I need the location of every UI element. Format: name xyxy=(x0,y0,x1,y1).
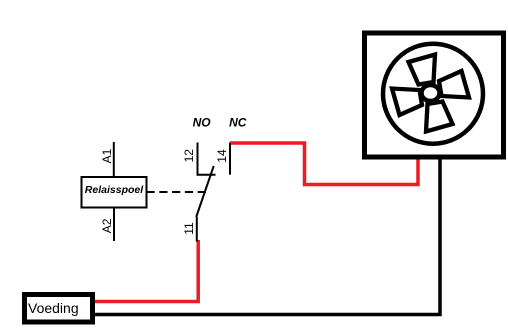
svg-text:Relaisspoel: Relaisspoel xyxy=(85,184,144,196)
svg-text:A2: A2 xyxy=(100,218,114,233)
svg-text:12: 12 xyxy=(182,149,196,163)
svg-text:Voeding: Voeding xyxy=(28,300,79,316)
svg-text:NC: NC xyxy=(229,116,247,130)
svg-text:A1: A1 xyxy=(100,148,114,163)
svg-text:14: 14 xyxy=(215,149,229,163)
svg-text:NO: NO xyxy=(193,116,212,130)
svg-text:11: 11 xyxy=(182,222,196,235)
